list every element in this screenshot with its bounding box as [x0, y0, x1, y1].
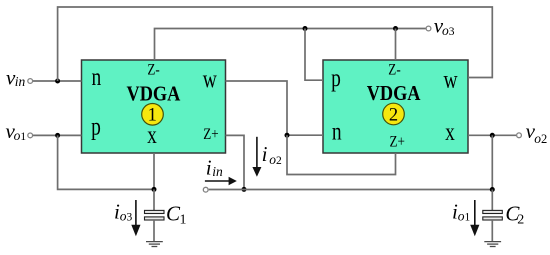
svg-text:in: in [212, 164, 223, 179]
node vin junction dot [55, 79, 60, 84]
node junction dot x2 [490, 133, 495, 138]
VDGA block U2 body [323, 60, 468, 153]
terminal vo1 [28, 133, 33, 138]
svg-text:1: 1 [180, 213, 187, 228]
terminal iin [203, 187, 208, 192]
node C1 top junction dot [152, 187, 157, 192]
wire iin terminal to C2 node (bottom rail) [209, 189, 493, 191]
svg-text:w: w [203, 65, 218, 93]
svg-text:p: p [331, 64, 341, 92]
wire vo3 rail down to U2 pin Z- [395, 29, 397, 61]
ground G1 [146, 242, 163, 247]
annotation current io3 arrow [131, 200, 140, 236]
label io2 [262, 142, 282, 167]
svg-text:Z+: Z+ [203, 126, 218, 143]
svg-text:p: p [91, 112, 101, 140]
wire U1 pin x down to C1 node [153, 153, 155, 189]
U1 designator circle 1 [142, 104, 164, 126]
svg-text:o2: o2 [534, 131, 547, 146]
label vo1 [6, 119, 27, 143]
svg-text:Z+: Z+ [389, 133, 404, 150]
svg-text:o3: o3 [120, 209, 133, 224]
svg-text:x: x [445, 117, 455, 145]
U2 designator circle 2 [383, 103, 405, 125]
annotation current io1 arrow [470, 200, 479, 236]
VDGA block U1 body [82, 60, 226, 153]
label iin [206, 155, 223, 179]
label vo3 [434, 14, 455, 38]
svg-text:o3: o3 [442, 23, 455, 38]
wire vo1 node down to C1 top node [58, 135, 154, 189]
terminal vin [28, 79, 33, 84]
svg-text:VDGA: VDGA [127, 82, 181, 106]
svg-text:n: n [92, 63, 102, 91]
svg-text:2: 2 [517, 213, 524, 228]
label C1 [166, 201, 187, 227]
wire U1 pin w to U2 pin n [226, 81, 324, 135]
ground G2 [484, 242, 501, 247]
node junction dot vo3 rail to U2 pin p [303, 26, 308, 31]
wire x2 node down to C2 node [491, 135, 493, 189]
svg-text:x: x [147, 121, 157, 149]
node vo1 junction dot [55, 133, 60, 138]
svg-text:o1: o1 [14, 128, 27, 143]
node junction dot Z+1 to bottom rail [242, 187, 247, 192]
svg-text:VDGA: VDGA [367, 82, 421, 106]
svg-text:i: i [262, 142, 268, 166]
svg-text:Z-: Z- [388, 61, 400, 78]
wire vo3 rail down to U2 pin p [305, 29, 323, 81]
capacitor C1 [145, 210, 165, 220]
svg-text:i: i [206, 155, 212, 179]
wire U2 pin x to vo2 terminal [468, 134, 516, 136]
svg-text:n: n [332, 117, 342, 145]
svg-text:o1: o1 [458, 209, 471, 224]
node junction dot vo3 rail to U2 pin Z- [393, 26, 398, 31]
label vin [6, 66, 25, 90]
wire capacitor C1 to ground [153, 220, 155, 242]
wire w1 node down to U2 pin Z+ [287, 135, 396, 174]
terminal vo2 [517, 133, 522, 138]
wire vin node to U2 pin w (top feedback) [58, 7, 493, 81]
annotation current io2 arrow [252, 137, 261, 177]
wire C1 node to capacitor C1 [153, 189, 155, 210]
node junction dot w1-n2-z2 [285, 133, 290, 138]
wire C2 node to capacitor C2 [491, 190, 493, 211]
label C2 [505, 201, 524, 227]
label vo2 [526, 119, 548, 146]
svg-text:in: in [15, 74, 26, 89]
node C2 top junction dot [490, 187, 495, 192]
annotation current iin arrow [205, 177, 237, 186]
wire vo1 terminal to U1 pin p [33, 134, 82, 136]
wire U1 pin Z- up to vo3 rail [155, 29, 426, 61]
wire U1 pin Z+ down to bottom rail [226, 135, 245, 189]
capacitor C2 [483, 210, 503, 220]
svg-text:Z-: Z- [147, 61, 159, 78]
label io3 [114, 200, 133, 224]
terminal vo3 [426, 26, 431, 31]
svg-text:o2: o2 [269, 152, 282, 167]
wire vin terminal to U1 pin n [33, 80, 82, 82]
wire capacitor C2 to ground [491, 220, 493, 242]
svg-text:w: w [443, 65, 458, 93]
label io1 [452, 200, 471, 224]
svg-text:2: 2 [389, 105, 398, 125]
